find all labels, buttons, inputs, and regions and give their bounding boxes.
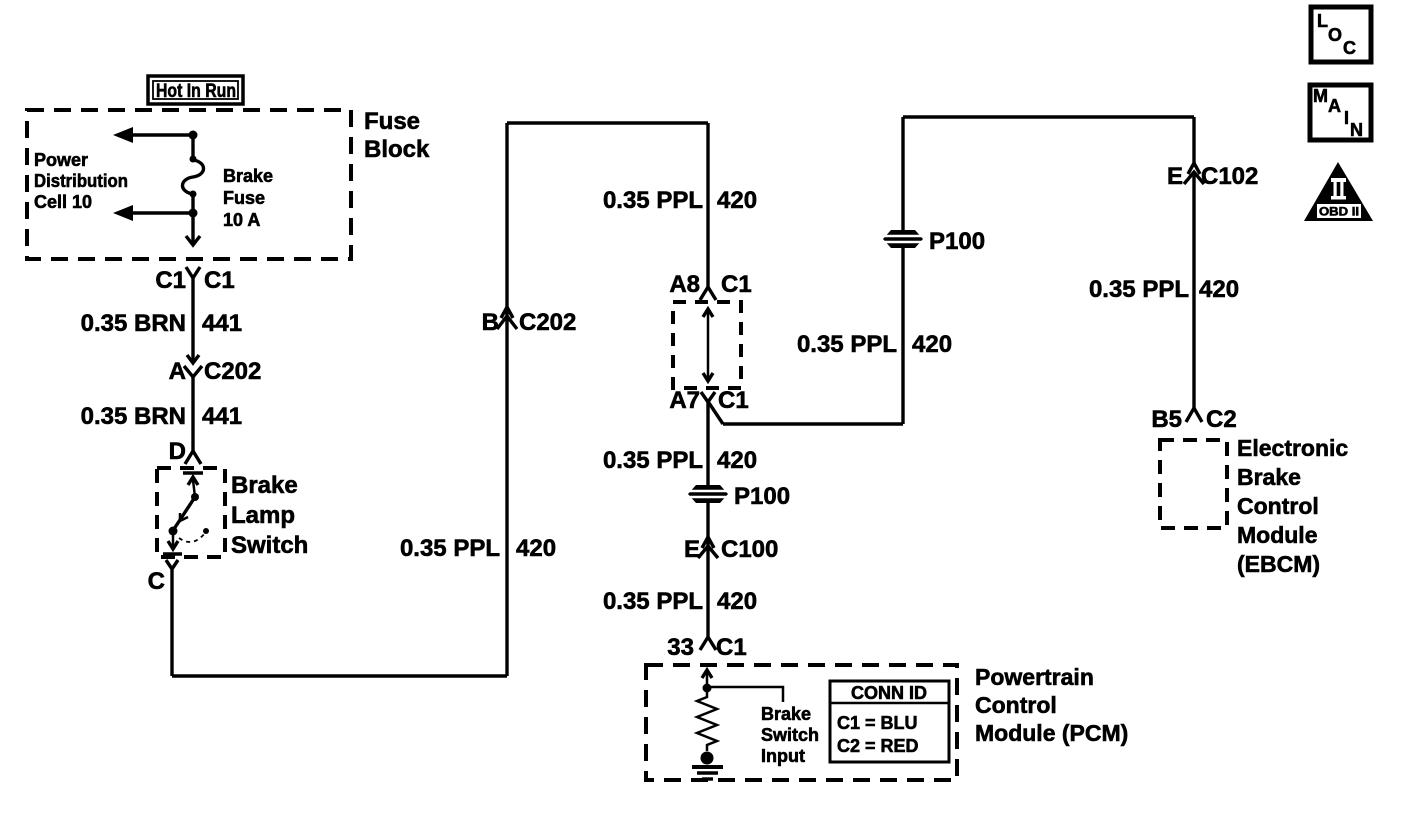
label Brake Switch Input (761, 704, 819, 766)
wire fuse to lower junction (191, 194, 194, 213)
svg-text:0.35 BRN: 0.35 BRN (81, 310, 186, 337)
svg-text:Brake: Brake (761, 704, 811, 724)
svg-text:C202: C202 (204, 358, 261, 385)
svg-text:10 A: 10 A (223, 210, 260, 230)
splice P100 (right riser) (883, 228, 985, 255)
svg-text:Control: Control (1237, 493, 1319, 519)
label 0.35 PPL 420 (right riser) (797, 331, 952, 358)
svg-text:CONN ID: CONN ID (851, 683, 927, 703)
wire feed upper with left arrow (113, 127, 193, 143)
svg-text:C2: C2 (1206, 406, 1237, 433)
svg-text:A7: A7 (669, 387, 700, 414)
svg-text:441: 441 (202, 310, 242, 337)
PCM U1 dashed box (646, 665, 957, 780)
svg-text:N: N (1350, 120, 1363, 140)
connector E C100 (684, 536, 778, 563)
svg-text:C102: C102 (1201, 163, 1258, 190)
svg-text:Input: Input (761, 746, 805, 766)
fuse block dashed box (27, 110, 351, 259)
connector B5 C2 (1151, 406, 1236, 433)
svg-text:P100: P100 (734, 483, 790, 510)
wire C202 to brake lamp switch (BRN 441) (191, 377, 194, 452)
svg-text:B: B (482, 309, 499, 336)
svg-text:(EBCM): (EBCM) (1237, 551, 1320, 577)
svg-text:E: E (1167, 163, 1183, 190)
connector A C202 (169, 355, 262, 385)
svg-text:441: 441 (202, 403, 242, 430)
label Hot In Run box (148, 76, 243, 104)
wire feed lower with left arrow (113, 205, 193, 221)
connector B C202 (482, 307, 577, 336)
junction dot below fuse (189, 209, 198, 218)
wire fuse output down arrow (186, 213, 200, 245)
connector C1 C1 (fuse block) (155, 267, 234, 294)
label 0.35 PPL 420 (mid lower) (603, 588, 757, 615)
svg-text:C100: C100 (721, 536, 778, 563)
junction dot top of fuse (189, 131, 198, 140)
PCM input arrow (702, 670, 712, 687)
wire C102 to B5 (PPL 420) (1192, 172, 1195, 408)
svg-text:O: O (1328, 25, 1342, 45)
inline connector dashed box (C1) (673, 302, 741, 388)
connector pin 33 C1 (PCM) (667, 634, 746, 661)
svg-text:Module (PCM): Module (PCM) (975, 720, 1128, 746)
svg-text:OBD II: OBD II (1319, 205, 1359, 219)
svg-text:C202: C202 (519, 309, 576, 336)
symbol LOC (1311, 7, 1371, 62)
symbol OBD II triangle (1304, 162, 1373, 221)
svg-text:Lamp: Lamp (231, 502, 295, 529)
svg-text:Block: Block (364, 136, 430, 163)
connector pass-through arrow (703, 309, 713, 381)
label Power Distribution Cell 10 (34, 150, 128, 212)
svg-text:Fuse: Fuse (223, 188, 265, 208)
svg-text:C1: C1 (718, 387, 749, 414)
connector pin D of brake lamp switch (169, 438, 201, 465)
svg-text:Power: Power (34, 150, 88, 170)
svg-text:E: E (684, 536, 700, 563)
svg-text:Brake: Brake (231, 472, 298, 499)
svg-text:0.35 PPL: 0.35 PPL (603, 187, 703, 214)
junction dot PCM input (703, 684, 712, 693)
svg-text:420: 420 (912, 331, 952, 358)
fuse F1 Brake Fuse 10 A (183, 156, 204, 198)
wire from junction to fuse (191, 135, 194, 158)
label 0.35 BRN 441 (lower) (81, 403, 242, 430)
label Fuse Block (364, 108, 430, 163)
splice P100 (middle) (688, 483, 790, 510)
wire left riser (PPL 420) (505, 123, 508, 676)
label Brake Lamp Switch (231, 472, 308, 559)
svg-text:Switch: Switch (761, 725, 819, 745)
svg-text:0.35 PPL: 0.35 PPL (603, 588, 703, 615)
label Powertrain Control Module (PCM) (975, 664, 1128, 746)
svg-text:420: 420 (516, 535, 556, 562)
svg-text:420: 420 (717, 588, 757, 615)
svg-text:P100: P100 (929, 228, 985, 255)
wire down to E C102 (1192, 117, 1195, 165)
wire C1 to C202 (BRN 441) (191, 278, 194, 361)
svg-text:Switch: Switch (231, 532, 308, 559)
svg-text:A8: A8 (669, 271, 700, 298)
label 0.35 PPL 420 (mid upper) (603, 447, 757, 474)
svg-text:C1: C1 (155, 267, 186, 294)
svg-text:420: 420 (717, 447, 757, 474)
CONN ID table (830, 681, 949, 762)
wire splice to E C100 (706, 503, 709, 637)
connector A7 C1 (669, 387, 748, 414)
svg-text:33: 33 (667, 634, 694, 661)
brake lamp switch S1 dashed box (157, 468, 225, 557)
svg-text:420: 420 (1199, 276, 1239, 303)
svg-text:Fuse: Fuse (364, 108, 420, 135)
svg-text:Cell 10: Cell 10 (34, 192, 92, 212)
svg-text:0.35 PPL: 0.35 PPL (1089, 276, 1189, 303)
svg-text:Control: Control (975, 692, 1057, 718)
connector pin C of brake lamp switch (148, 560, 178, 595)
svg-text:0.35 PPL: 0.35 PPL (400, 535, 500, 562)
svg-text:M: M (1313, 86, 1328, 106)
wire right riser up (901, 117, 904, 424)
label 0.35 PPL 420 (left riser) (400, 535, 556, 562)
svg-text:Brake: Brake (1237, 464, 1301, 490)
wire A7 branch diagonal to EBCM run (709, 403, 903, 424)
wire stub Brake Switch Input (707, 687, 783, 702)
svg-text:C: C (148, 568, 165, 595)
svg-text:0.35 PPL: 0.35 PPL (603, 447, 703, 474)
svg-text:Electronic: Electronic (1237, 435, 1348, 461)
svg-text:Module: Module (1237, 522, 1318, 548)
svg-text:C2 = RED: C2 = RED (837, 736, 919, 756)
svg-text:0.35 BRN: 0.35 BRN (81, 403, 186, 430)
wire A7 down to splice (706, 402, 709, 485)
wire bottom horizontal run (172, 674, 507, 677)
svg-text:D: D (169, 438, 186, 465)
svg-text:Brake: Brake (223, 166, 273, 186)
wire top horizontal run (507, 121, 708, 124)
label 0.35 BRN 441 (upper) (81, 310, 242, 337)
label Electronic Brake Control Module (EBCM) (1237, 435, 1348, 577)
svg-text:Distribution: Distribution (34, 171, 128, 191)
svg-text:C1: C1 (204, 267, 235, 294)
svg-text:I: I (1344, 108, 1349, 128)
resistor R1 (PCM pull-up) (697, 690, 717, 751)
EBCM U2 dashed box (1160, 440, 1227, 528)
svg-text:A: A (1328, 96, 1341, 116)
label Brake Fuse 10 A (223, 166, 273, 230)
svg-text:420: 420 (717, 187, 757, 214)
wire top right horizontal run (903, 115, 1194, 118)
svg-text:0.35 PPL: 0.35 PPL (797, 331, 897, 358)
svg-text:C: C (1343, 38, 1356, 58)
brake lamp switch internals (163, 473, 209, 554)
svg-text:A: A (169, 358, 186, 385)
svg-text:L: L (1317, 11, 1328, 31)
svg-text:C1: C1 (716, 634, 747, 661)
connector A8 C1 (669, 271, 751, 300)
connector E C102 (1167, 163, 1258, 190)
label 0.35 PPL 420 (far right) (1089, 276, 1239, 303)
svg-text:Hot In Run: Hot In Run (156, 81, 236, 102)
ground (PCM internal) (692, 752, 723, 780)
svg-text:B5: B5 (1151, 406, 1182, 433)
svg-text:C1 = BLU: C1 = BLU (837, 713, 918, 733)
label 0.35 PPL 420 (top middle) (603, 187, 757, 214)
svg-text:Powertrain: Powertrain (975, 664, 1094, 690)
svg-text:C1: C1 (721, 271, 752, 298)
wire down to A8 (706, 123, 709, 287)
wire from switch C down (170, 569, 173, 676)
symbol MAIN (1310, 85, 1371, 140)
